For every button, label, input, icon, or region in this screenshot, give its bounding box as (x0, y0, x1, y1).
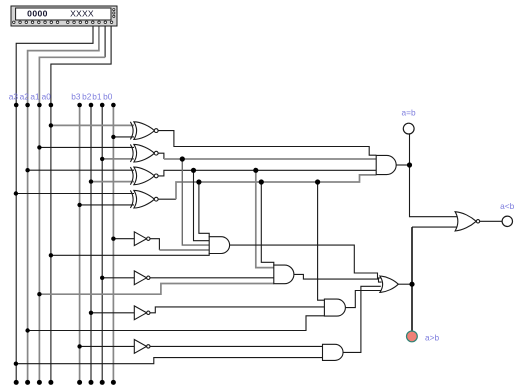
svg-text:b2: b2 (82, 92, 92, 102)
svg-text:b3: b3 (71, 92, 81, 102)
svg-text:a2: a2 (20, 92, 30, 102)
svg-text:b0: b0 (103, 92, 113, 102)
svg-text:a0: a0 (42, 92, 52, 102)
svg-text:a3: a3 (9, 92, 19, 102)
svg-text:a>b: a>b (425, 332, 439, 342)
svg-text:a1: a1 (30, 92, 40, 102)
svg-text:a<b: a<b (500, 201, 514, 211)
svg-text:a=b: a=b (402, 107, 416, 117)
svg-text:0000: 0000 (27, 9, 48, 19)
svg-text:XXXX: XXXX (70, 9, 94, 19)
svg-text:b1: b1 (92, 92, 102, 102)
